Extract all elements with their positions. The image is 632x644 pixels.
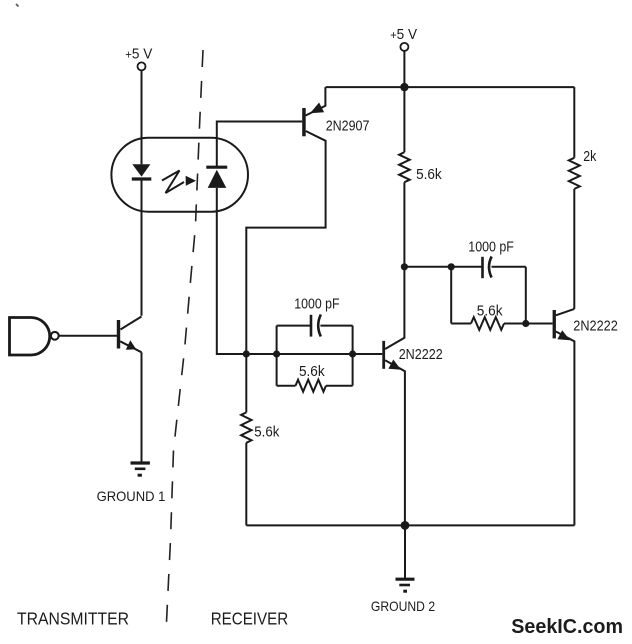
- resistor R1 5.6k (rail to node A): [399, 87, 410, 267]
- wire: Q1 emitter to ground 1: [141, 352, 143, 463]
- resistor R3 5.6k (node to ground rail): [241, 354, 251, 525]
- capacitor C1 flat plate: [310, 315, 313, 337]
- transistor Q4 emitter arrow: [557, 330, 570, 340]
- junction dot node A on main column: [401, 263, 408, 270]
- resistor R5 5.6k network 2: [451, 317, 526, 330]
- network 2 right leg: [525, 267, 527, 324]
- svg-text:2N2907: 2N2907: [326, 118, 370, 135]
- junction dot box1 right: [349, 350, 356, 357]
- transistor Q3 emitter arrow: [388, 360, 401, 370]
- svg-text:RECEIVER: RECEIVER: [211, 608, 289, 628]
- junction dot node B: [448, 263, 455, 270]
- optocoupler U1 package outline: [111, 138, 248, 212]
- +5 V terminal circle (transmitter): [138, 62, 146, 70]
- ground 1 symbol: [131, 463, 150, 475]
- transistor Q4 (2N2222) base bar: [553, 310, 556, 338]
- feedback network 1 right leg: [352, 326, 354, 386]
- network 2 left leg: [450, 267, 452, 324]
- feedback network 1 left leg: [276, 326, 278, 386]
- junction dot node C: [522, 320, 529, 327]
- transistor Q2 collector down-left to node: [246, 131, 325, 354]
- stray mark top-left: [16, 4, 19, 7]
- wire: node C to Q4 base: [526, 323, 553, 325]
- resistor R2 2k (rail to Q4 collector): [569, 87, 580, 309]
- transistor Q1 emitter arrow: [126, 340, 136, 350]
- svg-text:2k: 2k: [583, 148, 596, 165]
- NAND gate G1: [10, 318, 59, 356]
- transistor Q3 (2N2222) base bar: [382, 341, 385, 369]
- resistor R4 5.6k bottom branch: [277, 380, 353, 392]
- photodiode D2 cathode bar: [206, 166, 227, 169]
- wire: photodiode top up and right to Q2 base: [217, 122, 302, 168]
- transistor Q3 collector: [385, 267, 404, 349]
- svg-text:5.6k: 5.6k: [416, 166, 442, 183]
- light arrow inside optocoupler: [162, 171, 196, 194]
- transistor Q4 emitter: [556, 332, 575, 526]
- transistor Q2 (2N2907 PNP) base bar: [302, 108, 306, 136]
- svg-text:+5 V: +5 V: [390, 27, 417, 43]
- junction dot at +5V rail: [400, 83, 408, 91]
- top rail wire: [326, 86, 575, 88]
- svg-text:GROUND 1: GROUND 1: [97, 488, 166, 504]
- svg-text:1000 pF: 1000 pF: [468, 239, 514, 256]
- svg-text:SeekIC.com: SeekIC.com: [511, 615, 623, 638]
- transistor Q2 emitter arrow: [310, 103, 324, 114]
- LED D1 cathode bar: [132, 177, 152, 180]
- junction dot node left: [243, 350, 250, 357]
- transistor Q1 (NPN) base bar: [117, 320, 120, 349]
- svg-text:5.6k: 5.6k: [254, 423, 279, 440]
- node wire: left node to Q3 base: [246, 353, 382, 355]
- junction dot ground rail: [401, 521, 410, 530]
- svg-text:2N2222: 2N2222: [399, 346, 443, 363]
- wire: photodiode bottom down and right to node: [217, 188, 247, 354]
- wire: LED cathode down to Q1 collector: [141, 181, 143, 316]
- photodiode D2 triangle: [208, 170, 227, 188]
- +5 V terminal circle (receiver): [400, 43, 408, 51]
- transistor Q1 collector: [121, 317, 142, 330]
- transistor Q4 collector: [556, 309, 574, 315]
- wire: +5V down to top rail: [403, 51, 405, 87]
- capacitor C2 flat plate: [481, 257, 484, 278]
- dashed separator line between transmitter and receiver: [167, 50, 204, 622]
- wire: rail to ground 2: [404, 525, 406, 578]
- capacitor C2 curved plate: [489, 257, 492, 278]
- bottom ground rail: [246, 524, 574, 526]
- svg-text:+5 V: +5 V: [125, 46, 152, 62]
- feedback network 2 top wire with capacitor C2: [404, 266, 481, 268]
- transistor Q1 emitter: [120, 341, 141, 352]
- LED D1 triangle: [132, 164, 150, 176]
- junction dot box1 left: [273, 350, 280, 357]
- wire: +5V down to optocoupler LED: [141, 70, 143, 164]
- svg-text:5.6k: 5.6k: [299, 363, 325, 380]
- svg-text:GROUND 2: GROUND 2: [371, 598, 435, 614]
- capacitor C1 top branch wires: [277, 325, 310, 327]
- svg-text:2N2222: 2N2222: [573, 318, 618, 335]
- transistor Q3 emitter: [385, 360, 405, 525]
- capacitor C1 curved plate: [318, 315, 321, 337]
- ground 2 symbol: [396, 579, 415, 591]
- svg-text:5.6k: 5.6k: [477, 303, 503, 320]
- transistor Q2 emitter to rail: [306, 87, 326, 115]
- svg-text:TRANSMITTER: TRANSMITTER: [17, 608, 129, 628]
- wire: NAND output to Q1 base: [59, 335, 117, 337]
- svg-text:1000 pF: 1000 pF: [294, 296, 339, 313]
